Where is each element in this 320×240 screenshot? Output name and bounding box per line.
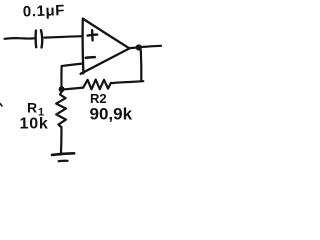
wire feedback vertical bbox=[140, 50, 143, 81]
wire capacitor to op-amp bbox=[45, 36, 83, 37]
resistor R1 zigzag bbox=[56, 92, 66, 127]
wire R1 to ground bbox=[60, 127, 63, 155]
op-amp minus input sign bbox=[86, 56, 95, 59]
ground bar 2 bbox=[59, 160, 68, 163]
capacitor C plates bbox=[34, 31, 37, 48]
wire feedback horizontal to R2 bbox=[114, 81, 143, 83]
svg-text:0.1μF: 0.1μF bbox=[23, 2, 66, 20]
ground bar 1 bbox=[52, 153, 74, 155]
wire output right bbox=[142, 46, 162, 47]
op-amp U1 triangle bbox=[81, 19, 130, 74]
node feedback junction dot bbox=[59, 86, 65, 92]
wire input left bbox=[5, 37, 35, 40]
resistor R2 zigzag bbox=[83, 80, 114, 90]
wire minus input vertical bbox=[60, 66, 62, 87]
wire minus input horizontal bbox=[62, 64, 82, 66]
wire junction to R2 bbox=[65, 88, 84, 90]
svg-text:10k: 10k bbox=[20, 116, 49, 133]
stray mark left edge bbox=[0, 104, 2, 107]
op-amp plus input sign bbox=[88, 30, 98, 40]
svg-text:R: R bbox=[27, 100, 37, 116]
wire output stub bbox=[130, 46, 137, 49]
svg-text:90,9k: 90,9k bbox=[90, 105, 133, 124]
node output junction dot bbox=[136, 44, 142, 50]
